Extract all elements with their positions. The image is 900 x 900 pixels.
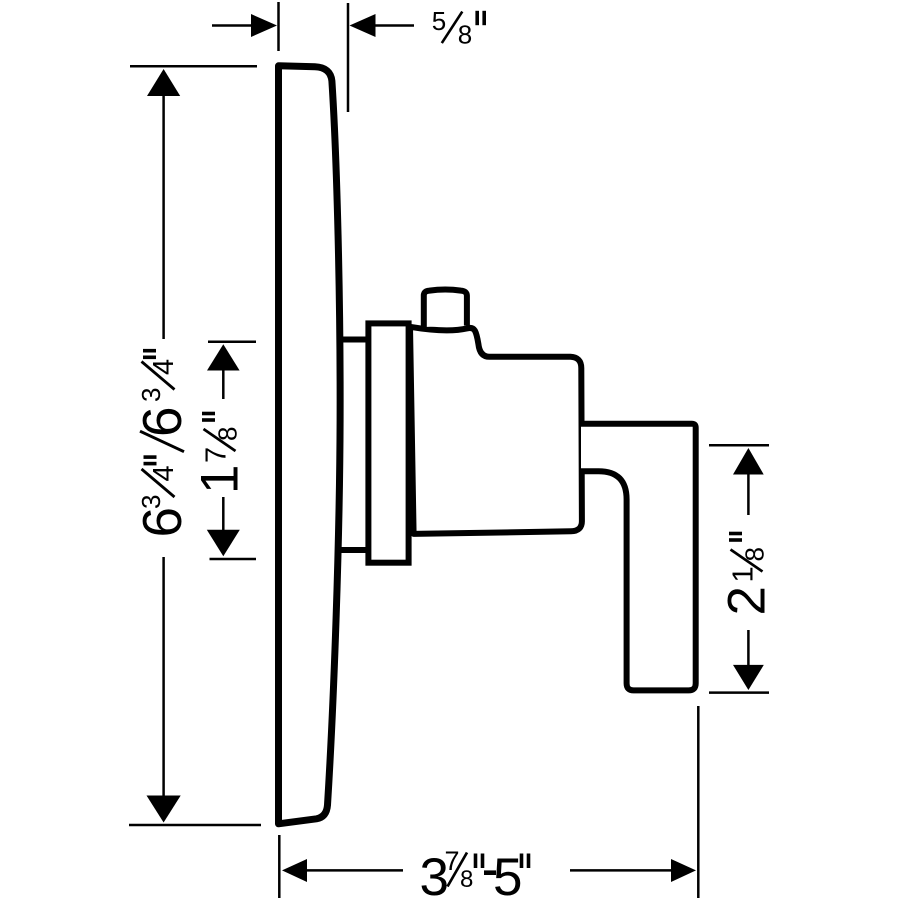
svg-text:1: 1 — [191, 465, 250, 494]
dimension label 5/8" — [432, 6, 484, 49]
svg-text:8: 8 — [740, 547, 770, 561]
sleeve bottom line — [339, 547, 368, 553]
dimension label 1 7/8" (rotated) — [191, 414, 250, 495]
svg-text:8: 8 — [213, 427, 243, 441]
dimension 6 3/4 bottom arrow — [147, 557, 181, 823]
svg-text:1: 1 — [728, 566, 760, 582]
dimension label 2 1/8" (rotated) — [718, 534, 777, 616]
dimension 3 7/8 - 5 left arrow — [282, 859, 403, 882]
dimension 2 1/8 top extension line — [709, 444, 769, 447]
dimension 2 1/8 bottom extension line — [709, 691, 769, 694]
svg-text:5: 5 — [493, 848, 522, 900]
dimension 5/8 extension line right — [347, 3, 350, 112]
dimension 5/8 left arrow — [212, 14, 277, 37]
svg-text:6: 6 — [131, 507, 193, 538]
svg-text:3: 3 — [136, 388, 166, 402]
dimension 2 1/8 bottom arrow — [733, 630, 764, 690]
svg-text:6: 6 — [131, 406, 193, 437]
dimension 3 7/8 - 5 right arrow — [570, 859, 696, 882]
svg-text:4: 4 — [148, 465, 180, 481]
dimension 5/8 extension line left — [277, 2, 280, 51]
dimension 6 3/4 top extension line — [130, 65, 257, 68]
svg-text:7: 7 — [201, 447, 233, 463]
svg-text:8: 8 — [458, 19, 472, 49]
dimension 6 3/4 bottom extension line — [129, 824, 261, 827]
svg-text:2: 2 — [718, 586, 777, 615]
dimension label 6 3/4" / 6 3/4" (rotated) — [131, 351, 193, 538]
mounting flange — [368, 323, 408, 562]
dimension 1 7/8 bottom extension line — [210, 558, 257, 561]
escutcheon plate (side profile) — [279, 66, 341, 824]
dimension 6 3/4 top arrow — [147, 69, 180, 339]
dimension 1 7/8 top extension line — [208, 341, 256, 344]
valve body — [410, 327, 582, 534]
svg-text:8: 8 — [460, 866, 473, 893]
dimension 5/8 right arrow — [350, 14, 415, 37]
dimension 1 7/8 bottom arrow — [207, 497, 240, 556]
svg-text:3: 3 — [136, 495, 166, 509]
sleeve top line — [339, 337, 368, 343]
lever handle — [581, 424, 696, 691]
dimension 1 7/8 top arrow — [207, 344, 240, 399]
dimension label 3 7/8" - 5" — [420, 846, 529, 900]
dimension 3 7/8 - 5 left extension line — [278, 835, 281, 898]
svg-text:4: 4 — [148, 359, 180, 375]
svg-text:5: 5 — [432, 6, 446, 36]
dimension 2 1/8 top arrow — [733, 448, 764, 515]
knob on top of valve body — [424, 289, 467, 327]
dimension 3 7/8 - 5 right extension line — [697, 706, 700, 898]
